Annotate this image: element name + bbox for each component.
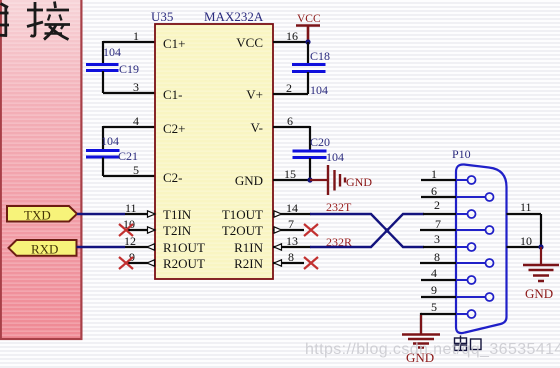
svg-text:RXD: RXD [31, 242, 58, 257]
node crossing dot [385, 228, 389, 232]
title text 接 (large black char) [27, 2, 70, 40]
capacitor C21 [86, 151, 120, 158]
wire pin15 [273, 179, 310, 181]
svg-text:C20: C20 [310, 135, 330, 149]
wire C20 to pin15 [309, 158, 311, 180]
pin 7 output arrow [274, 227, 282, 233]
DB9 pin 6 [421, 184, 494, 201]
no-ERC cross pin7 [304, 224, 318, 236]
pin 10 stub [125, 229, 155, 231]
wire 232R (pin13 to DB9 pin2, crossing) [310, 214, 424, 247]
svg-text:3: 3 [434, 232, 440, 246]
pin 8 stub [273, 262, 304, 264]
svg-text:4: 4 [431, 266, 437, 280]
svg-text:1: 1 [431, 167, 437, 181]
node junction shell/ground [538, 244, 543, 249]
wire TXD to pin11 [77, 213, 125, 215]
wire shell vertical [540, 214, 542, 247]
svg-text:C21: C21 [118, 149, 138, 163]
svg-text:7: 7 [435, 217, 441, 231]
watermark text [305, 341, 560, 358]
DB9 pin 1 [421, 167, 476, 184]
svg-text:104: 104 [101, 134, 119, 148]
pin names right column [222, 35, 264, 271]
wire C18 to pin2 [273, 72, 308, 94]
pin numbers left [123, 29, 139, 264]
no-ERC cross pin8 [304, 257, 318, 269]
wire shell pin 11 [507, 213, 542, 215]
svg-text:C1+: C1+ [163, 36, 186, 51]
capacitor C20 [293, 151, 327, 158]
svg-text:GND: GND [346, 175, 372, 189]
DB9 pin 7 [420, 217, 494, 234]
pin 12 output arrow [147, 244, 155, 250]
pin 8 input arrow [274, 260, 282, 266]
svg-text:GND: GND [235, 173, 263, 188]
svg-text:C1-: C1- [163, 87, 183, 102]
svg-text:R1IN: R1IN [234, 240, 264, 255]
svg-text:P10: P10 [452, 147, 471, 161]
ground (right, shell) [523, 247, 559, 301]
DB9 pin 5 [421, 300, 476, 318]
svg-text:9: 9 [431, 283, 437, 297]
DB9 pin 8 [420, 250, 494, 267]
no-ERC cross pin9 [119, 257, 133, 269]
svg-text:C18: C18 [310, 49, 330, 63]
svg-text:104: 104 [103, 45, 121, 59]
svg-text:232T: 232T [326, 200, 352, 214]
title text 连 (cropped partial char) [0, 4, 9, 37]
svg-text:1: 1 [133, 29, 139, 43]
node junction pin16/C18 [305, 39, 310, 44]
svg-text:6: 6 [431, 184, 437, 198]
svg-text:TXD: TXD [24, 208, 51, 223]
pin 11 stub [125, 213, 155, 215]
wire shell pin 10 [507, 246, 542, 248]
svg-text:GND: GND [525, 286, 553, 301]
pink panel (cropped left sheet area) [0, 0, 82, 339]
pin 11 input arrow [148, 211, 156, 217]
wire RXD to pin12 [77, 246, 126, 248]
svg-text:104: 104 [310, 83, 328, 97]
node junction pin15/C20/GND [307, 177, 312, 182]
svg-text:T1IN: T1IN [163, 207, 192, 222]
DB9 pin 2 [423, 198, 476, 218]
wire C21 to pin5 [103, 158, 155, 177]
pin 14 stub [273, 213, 311, 215]
svg-text:V-: V- [250, 120, 263, 135]
svg-text:VCC: VCC [297, 13, 321, 25]
svg-text:C2-: C2- [163, 170, 183, 185]
power VCC symbol [296, 13, 321, 42]
pin 9 stub [125, 262, 155, 264]
op-amp chip U35 MAX232A body [155, 24, 273, 279]
DB9 pin 9 [421, 283, 494, 301]
pin numbers right [284, 29, 298, 264]
svg-text:C19: C19 [119, 62, 139, 76]
svg-text:10: 10 [520, 234, 532, 248]
wire node to C18 [307, 42, 309, 64]
pin 13 input arrow [274, 244, 282, 250]
wire 232T (pin14 to DB9 pin3, crossing) [310, 214, 424, 247]
wire C19 to pin3 [103, 71, 155, 93]
wire pin16 to VCC node [273, 41, 308, 43]
DB9 pin 4 [421, 266, 476, 284]
port TXD flag [7, 206, 77, 223]
svg-text:R2IN: R2IN [234, 256, 264, 271]
pin 13 stub [273, 246, 311, 248]
ground (below DB9 pin5) [402, 315, 440, 365]
svg-text:2: 2 [434, 198, 440, 212]
DB9 pin 3 [423, 232, 476, 251]
svg-text:5: 5 [431, 300, 437, 314]
pin 7 stub [273, 229, 304, 231]
svg-text:R2OUT: R2OUT [163, 256, 205, 271]
wire pin1 to C19 [103, 41, 155, 64]
svg-text:8: 8 [434, 250, 440, 264]
svg-text:4: 4 [133, 114, 139, 128]
no-ERC cross pin10 [119, 224, 133, 236]
svg-text:V+: V+ [246, 87, 263, 102]
svg-text:VCC: VCC [236, 35, 263, 50]
svg-text:3: 3 [133, 80, 139, 94]
pin 9 output arrow [147, 260, 155, 266]
pin names left column [163, 36, 205, 271]
wire pin4 to C21 [103, 126, 155, 150]
port RXD flag [9, 240, 77, 257]
svg-text:104: 104 [326, 150, 344, 164]
svg-text:T2OUT: T2OUT [222, 223, 263, 238]
pin 14 output arrow [274, 211, 282, 217]
svg-text:11: 11 [520, 200, 532, 214]
svg-text:MAX232A: MAX232A [204, 9, 264, 24]
svg-text:https://blog.csdn.net/qq_36535: https://blog.csdn.net/qq_36535414 [305, 341, 560, 358]
svg-text:U35: U35 [151, 9, 173, 24]
capacitor C19 [86, 65, 119, 71]
svg-text:C2+: C2+ [163, 121, 186, 136]
pin 12 stub [125, 246, 155, 248]
capacitor C18 [292, 65, 326, 72]
svg-text:T1OUT: T1OUT [222, 207, 263, 222]
wire pin6 to C20 [273, 126, 310, 150]
svg-text:T2IN: T2IN [163, 223, 192, 238]
svg-text:R1OUT: R1OUT [163, 240, 205, 255]
pin 10 input arrow [148, 227, 156, 233]
label 串口 (serial port) [455, 336, 482, 352]
wire DB9 pin5 to ground [421, 314, 422, 334]
ground (rotated, at pin15) [310, 165, 372, 195]
connector P10 DB9 body [456, 164, 507, 333]
svg-text:5: 5 [133, 163, 139, 177]
